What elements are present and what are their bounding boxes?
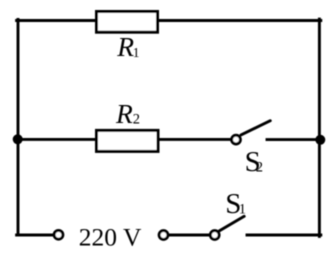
wire: S2 to right node xyxy=(267,138,321,141)
wire: left vertical xyxy=(17,20,20,236)
node: junction dot right xyxy=(315,135,325,145)
switch S1 lever xyxy=(219,216,244,231)
wire: S1 to bottom-right corner xyxy=(247,234,321,237)
switch S1 pivot contact xyxy=(210,231,219,240)
svg-text:220 V: 220 V xyxy=(79,222,142,251)
wire: bottom left segment xyxy=(17,234,59,237)
wire: middle branch (node to R2 to S2) xyxy=(18,138,236,141)
node: junction dot left xyxy=(13,134,23,144)
source terminal circle left xyxy=(54,230,63,239)
wire: right vertical xyxy=(318,19,321,236)
wire: 220V terminal to S1 pivot xyxy=(164,234,216,237)
svg-text:1: 1 xyxy=(133,45,140,60)
switch S2 pivot contact xyxy=(232,135,241,144)
resistor R2 xyxy=(97,130,159,151)
wire: top horizontal xyxy=(17,19,321,22)
svg-text:2: 2 xyxy=(256,160,263,176)
svg-text:R: R xyxy=(115,98,133,129)
svg-text:1: 1 xyxy=(239,202,246,218)
svg-text:R: R xyxy=(116,31,134,62)
resistor R1 xyxy=(97,12,158,33)
switch S2 lever xyxy=(241,121,270,135)
svg-text:2: 2 xyxy=(133,112,140,128)
source terminal circle right xyxy=(159,231,168,240)
